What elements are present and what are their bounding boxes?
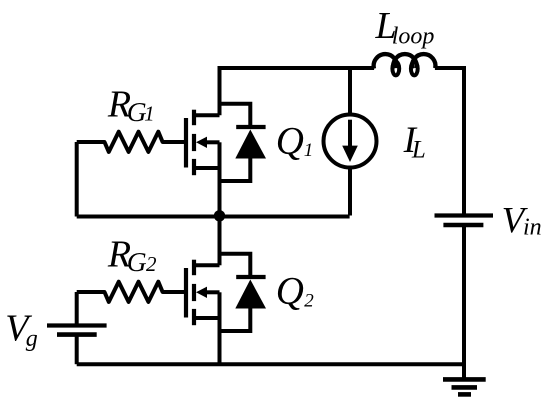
diode: body diode of Q1 xyxy=(220,104,267,181)
wire: Q1 source to switch node xyxy=(218,168,222,216)
label R_G2 xyxy=(107,233,157,276)
label L_loop xyxy=(375,5,435,50)
ground xyxy=(443,379,486,394)
transistor Q1 (MOSFET) xyxy=(186,110,220,176)
label Vg xyxy=(5,308,38,352)
wire: Vin negative terminal to ground xyxy=(462,225,466,379)
wire: top rail, Q1 drain to inductor xyxy=(220,68,375,115)
resistor R_G1 xyxy=(77,132,184,152)
current source IL xyxy=(324,68,377,216)
svg-text:1: 1 xyxy=(304,140,314,161)
label IL xyxy=(403,120,426,164)
label Vin xyxy=(502,200,542,241)
svg-text:2: 2 xyxy=(304,290,314,311)
svg-text:2: 2 xyxy=(146,252,157,276)
svg-text:loop: loop xyxy=(392,23,435,49)
wire: top rail, inductor to Vin xyxy=(435,68,464,214)
inductor L_loop xyxy=(374,54,436,75)
diode: body diode of Q2 xyxy=(220,254,267,331)
svg-text:L: L xyxy=(411,137,426,164)
wire: switch node to Q2 drain xyxy=(218,216,222,266)
svg-text:g: g xyxy=(26,326,38,352)
resistor R_G2 xyxy=(77,282,184,302)
label Q1 xyxy=(276,120,314,163)
transistor Q2 (MOSFET) xyxy=(186,260,220,326)
svg-text:1: 1 xyxy=(144,101,155,125)
wire: bottom rail xyxy=(77,362,464,366)
svg-text:Q: Q xyxy=(276,120,304,163)
voltage source Vin (battery) xyxy=(435,216,494,226)
wire: R_G1 return to switch node xyxy=(75,142,79,217)
svg-text:Q: Q xyxy=(276,270,304,313)
svg-text:G: G xyxy=(127,246,147,277)
voltage source Vg (battery) xyxy=(47,292,107,364)
wire: Q2 source to bottom rail xyxy=(218,318,222,364)
node: switch-node junction dot xyxy=(214,210,225,221)
svg-text:in: in xyxy=(523,215,542,241)
wire: switch node horizontal xyxy=(77,215,350,219)
label Q2 xyxy=(276,270,315,313)
label R_G1 xyxy=(107,83,155,126)
